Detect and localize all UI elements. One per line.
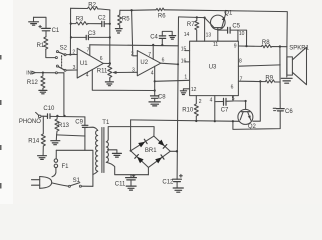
node feedback/C2 row right: [109, 23, 111, 25]
svg-text:C1: C1: [52, 28, 60, 34]
AC plug P1: [32, 177, 52, 189]
ground (R13 junction): [51, 141, 60, 145]
wire T1 secondary bottom to C11 line: [106, 162, 148, 174]
node feedback/C3 row right: [109, 36, 111, 38]
svg-text:3: 3: [73, 65, 76, 71]
node pin4 / rail: [214, 120, 216, 122]
wire U3 pin 7 to R9: [238, 80, 265, 82]
svg-text:11: 11: [213, 42, 218, 48]
svg-text:3: 3: [132, 68, 135, 74]
capacitor C10: [43, 106, 55, 119]
wire U1 pin7 to V+ line: [89, 45, 91, 56]
transformer T1: [96, 120, 110, 172]
wire U2 pin4 down: [154, 66, 156, 96]
ground (SPKR1): [281, 78, 292, 83]
wire U3 pin 9 to R8: [238, 45, 261, 47]
wire Q2 base: [245, 101, 247, 109]
svg-text:C8: C8: [158, 94, 166, 100]
wire bottom V+ rail: [131, 120, 240, 121]
ground (U3 pin 12): [180, 91, 186, 95]
node pin7 / Q2 branch: [259, 80, 261, 82]
svg-text:16: 16: [181, 58, 187, 64]
op-amp U2: [131, 51, 165, 77]
svg-text:R1: R1: [37, 43, 45, 49]
wire rail down to BR1 left vertex: [130, 120, 132, 151]
ground (R5): [115, 29, 122, 33]
svg-text:4: 4: [86, 72, 89, 78]
ground (R12): [39, 90, 47, 93]
svg-text:C2: C2: [98, 16, 106, 22]
resistor R8: [261, 40, 286, 48]
capacitor C12: [162, 174, 182, 188]
svg-text:R3: R3: [76, 16, 84, 22]
transistor Q2: [238, 109, 257, 130]
node R8 / C6 branch: [279, 45, 281, 47]
op-amp U1: [72, 47, 103, 78]
wire S2 pole B to U1 pin 3: [66, 69, 77, 71]
switch S1: [68, 178, 81, 187]
svg-text:6: 6: [162, 58, 165, 64]
node U2 output / bus: [177, 63, 179, 65]
svg-text:1: 1: [184, 74, 187, 80]
wire speaker to ground: [286, 47, 288, 77]
svg-text:Q2: Q2: [248, 124, 257, 130]
wire C9 bottom to F1 line: [84, 136, 86, 150]
wire Q2 emitter to pin7 net: [253, 81, 260, 121]
ground (C8): [149, 102, 160, 106]
svg-text:7: 7: [87, 47, 90, 53]
resistor R10: [182, 96, 198, 122]
node R3 row left: [70, 23, 72, 25]
fuse F1: [52, 150, 69, 177]
ground (C12): [173, 188, 183, 192]
node R13 top: [56, 115, 58, 117]
pin 15 stub: [181, 46, 190, 52]
svg-text:S2: S2: [60, 46, 68, 52]
node U2 pin4 / U3 pin1 wire: [154, 80, 156, 82]
wire bus (BR1 + rail to U3 drive line): [177, 17, 178, 179]
resistor R5: [118, 10, 131, 27]
svg-text:R2: R2: [88, 3, 96, 9]
wire ground to C1 top: [34, 17, 47, 28]
node U2 pin4 / C8: [154, 89, 156, 91]
node U1 pin2 / feedback junction: [69, 53, 71, 55]
node U1 output junction: [109, 62, 111, 64]
wire rail junction down to U2 pin 2: [132, 10, 138, 56]
svg-text:4: 4: [210, 98, 213, 104]
svg-text:C7: C7: [221, 108, 229, 114]
svg-text:R11: R11: [97, 69, 108, 75]
svg-text:U2: U2: [140, 60, 148, 66]
wire U1 output: [103, 62, 110, 64]
capacitor C9: [75, 117, 88, 136]
node C3 row left: [70, 36, 72, 38]
wire C6 branch vertical: [233, 47, 280, 130]
wire U3 pin 5 to Q2 base: [233, 96, 246, 101]
svg-text:C5: C5: [232, 23, 240, 29]
resistor R13: [55, 116, 70, 135]
node R7 top: [196, 16, 198, 18]
wire U2 pin4 net to U3 pin 1: [155, 80, 190, 81]
capacitor C11: [115, 175, 137, 188]
svg-text:7: 7: [148, 52, 151, 58]
wire T1 primary bottom: [93, 171, 98, 174]
wire U3 pin 4 down to rail: [214, 96, 216, 122]
svg-text:12: 12: [191, 87, 197, 93]
pin 16 stub: [181, 58, 190, 64]
wire plug to S1: [52, 183, 69, 186]
wire U1 pin4 to C8 rail: [92, 70, 154, 91]
transistor Q1: [205, 10, 233, 29]
node BR1 left vertex: [130, 150, 132, 152]
svg-text:C10: C10: [43, 106, 55, 112]
svg-text:R13: R13: [58, 123, 70, 129]
resistor R6: [156, 8, 166, 19]
wire F1 top line: [56, 150, 93, 186]
wire S1 to T1 primary: [81, 185, 93, 187]
wire Q1 base to U3 pin 11: [217, 28, 219, 42]
node rail / U2 pin2 / R5: [130, 9, 132, 11]
svg-text:6: 6: [100, 56, 103, 62]
resistor R2: [71, 3, 110, 10]
svg-text:14: 14: [184, 32, 190, 38]
svg-text:6: 6: [231, 84, 234, 90]
svg-text:10: 10: [239, 31, 245, 37]
resistor R12: [27, 73, 45, 91]
node BR1 / bus: [176, 150, 178, 152]
node C4 junction: [161, 44, 163, 46]
terminal PHONO: [19, 112, 41, 125]
svg-text:C4: C4: [150, 35, 158, 41]
wire S2 pole A to U1 pin 2: [66, 54, 77, 56]
svg-text:BR1: BR1: [145, 148, 157, 154]
capacitor C1: [39, 25, 60, 33]
wire R11 wiper to U2 pin 3: [112, 71, 137, 74]
capacitor C2: [88, 16, 110, 27]
wire R13 bottom to C9: [57, 135, 85, 136]
ground (C1 bias): [29, 17, 39, 25]
ground (T1 centre tap): [112, 153, 121, 157]
capacitor C6: [273, 108, 293, 115]
resistor R9: [265, 75, 280, 83]
capacitor C7: [215, 98, 233, 113]
svg-text:PHONO: PHONO: [19, 119, 41, 125]
svg-text:U1: U1: [80, 61, 88, 67]
resistor R3: [71, 16, 88, 25]
capacitor C4: [150, 31, 172, 45]
node R10 / rail: [195, 120, 197, 122]
svg-text:U3: U3: [209, 65, 217, 71]
svg-text:C11: C11: [115, 182, 126, 188]
resistor R14: [28, 116, 45, 155]
svg-text:Q1: Q1: [224, 11, 233, 17]
wire R1 to S2 contact: [46, 49, 56, 57]
resistor R1: [37, 37, 48, 49]
wire U3 drive line (bus to Q1): [179, 16, 205, 19]
wire feedback right vertical to U1 output: [109, 10, 111, 64]
ground (C11): [126, 186, 136, 190]
ground (C4): [169, 36, 176, 40]
svg-text:C3: C3: [88, 31, 96, 37]
wire pin 13: [204, 18, 206, 42]
node pin9 / C5: [245, 45, 247, 47]
wire U2 pin7 to V+ line: [152, 45, 154, 59]
svg-text:R7: R7: [187, 22, 195, 28]
wire pin 12 to ground: [183, 89, 189, 91]
wire feedback left vertical (pin2 to loop): [69, 8, 71, 54]
capacitor C5: [218, 23, 247, 46]
svg-text:R12: R12: [27, 80, 39, 86]
svg-text:9: 9: [234, 44, 237, 50]
rectifier BR1: [131, 136, 171, 167]
svg-text:13: 13: [206, 32, 212, 38]
wire PHONO line: [41, 115, 85, 118]
wire T1 primary top to C9 plate: [87, 127, 97, 130]
svg-text:S1: S1: [73, 178, 81, 184]
svg-text:R6: R6: [158, 13, 166, 19]
wire U3 pin 8: [238, 65, 280, 66]
potentiometer R11: [97, 64, 112, 79]
svg-text:7: 7: [240, 76, 243, 82]
svg-text:C6: C6: [285, 109, 293, 115]
svg-text:C12: C12: [162, 180, 174, 186]
svg-text:4: 4: [151, 71, 154, 77]
svg-text:R8: R8: [262, 40, 270, 46]
switch S2: [55, 46, 67, 72]
wire IN to S2: [35, 72, 64, 74]
wire T1 secondary top to BR1: [106, 127, 154, 142]
node IN/R12 junction: [42, 72, 44, 74]
wire C1 to R1: [45, 31, 47, 37]
node Q2 collector branch: [232, 120, 234, 122]
wire BR1 right vertex to bus: [170, 150, 177, 152]
IC U3: [190, 41, 239, 95]
capacitor C3: [71, 31, 110, 40]
capacitor C8: [151, 94, 167, 102]
wire U2 output to bus: [161, 63, 179, 64]
svg-text:F1: F1: [62, 164, 70, 170]
svg-text:R10: R10: [182, 107, 194, 113]
node Q2 base junction: [245, 100, 247, 102]
node U2 pin7 junction: [152, 44, 154, 46]
resistor R7: [187, 17, 199, 41]
wire top rail (output line R5 to speaker): [120, 10, 287, 47]
wire V+ supply line U1/U2: [90, 45, 178, 46]
ground (R11): [105, 82, 113, 86]
svg-text:R5: R5: [122, 17, 130, 23]
wire pin 10: [237, 30, 239, 41]
svg-text:2: 2: [199, 99, 202, 105]
svg-text:C9: C9: [75, 119, 83, 125]
svg-text:IN: IN: [26, 70, 31, 76]
wire BR1 bottom vertex to C11 line: [147, 167, 149, 174]
svg-text:SPKR1: SPKR1: [289, 45, 309, 51]
svg-text:R14: R14: [28, 139, 40, 145]
ground (R14): [38, 156, 47, 160]
terminal IN: [26, 70, 35, 76]
speaker SPKR1: [287, 45, 310, 84]
node S2 branch: [63, 115, 65, 117]
svg-text:T1: T1: [102, 120, 110, 126]
svg-text:2: 2: [72, 49, 75, 55]
svg-text:8: 8: [239, 59, 242, 65]
svg-text:R9: R9: [265, 75, 273, 81]
wire T1 secondary centre tap: [108, 150, 117, 153]
wire S2 bottom to PHONO line: [63, 73, 66, 116]
node pin13 / Q1 collector: [204, 17, 206, 19]
svg-text:15: 15: [181, 46, 187, 52]
terminal circle on IN wire: [55, 72, 57, 74]
